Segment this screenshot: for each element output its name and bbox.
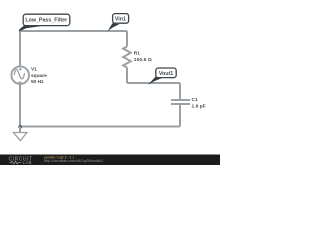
V1 value label [31, 66, 47, 85]
svg-text:C1: C1 [192, 97, 198, 103]
ground symbol [13, 127, 27, 141]
resistor R1 [123, 47, 131, 68]
svg-text:http://circuitlab.com/c/67uy28: http://circuitlab.com/c/67uy28bvw8k4 [44, 159, 103, 163]
svg-text:LAB: LAB [23, 160, 32, 165]
svg-text:R1: R1 [134, 51, 140, 57]
wire capacitor top lead [179, 83, 181, 100]
footer logo zigzag [10, 161, 21, 164]
svg-text:Low_Pass_Filter: Low_Pass_Filter [25, 18, 67, 24]
svg-text:1.6 µF: 1.6 µF [192, 103, 206, 109]
node flag Vin1 tail [108, 23, 120, 31]
wire resistor bottom lead [126, 68, 128, 84]
voltage source V1 [11, 66, 29, 84]
wire top horizontal Vin net [20, 30, 127, 32]
node flag Vin1 [113, 14, 129, 24]
node flag Low_Pass_Filter tail [19, 25, 41, 32]
wire capacitor bottom lead [179, 104, 181, 127]
svg-text:100.6 Ω: 100.6 Ω [134, 57, 152, 63]
footer watermark bar [0, 155, 220, 166]
footer CircuitLab logo [9, 157, 33, 166]
node flag Vout1 tail [148, 77, 162, 85]
C1 value label [192, 97, 206, 109]
node flag Vout1 [156, 68, 176, 78]
svg-text:Vout1: Vout1 [159, 71, 173, 77]
node flag Low_Pass_Filter [23, 14, 70, 25]
wire resistor top lead [126, 31, 128, 47]
wire mid horizontal Vout net [127, 82, 180, 84]
svg-text:50 Hz: 50 Hz [31, 79, 44, 85]
wire left vertical lower [19, 85, 21, 127]
capacitor C1 [171, 100, 190, 104]
wire left vertical upper [19, 31, 21, 66]
wire bottom horizontal ground net [20, 126, 180, 128]
junction dot ground net [18, 125, 22, 129]
R1 value label [134, 51, 152, 63]
svg-text:square: square [31, 73, 47, 79]
svg-text:Vin1: Vin1 [115, 17, 126, 23]
svg-text:V1: V1 [31, 66, 37, 72]
